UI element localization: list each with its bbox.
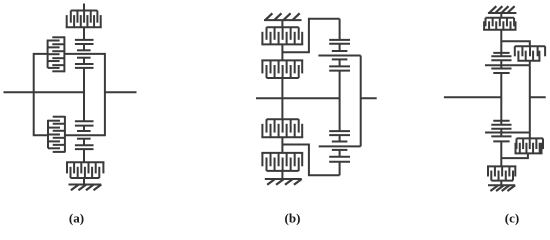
svg-text:(b): (b) [285, 211, 301, 226]
ground symbol (b top) [264, 19, 302, 21]
ground symbol (c bottom) [488, 184, 515, 186]
brake B5 pack (b bottom-1) [267, 118, 299, 120]
clutch C3 plates (a lower) [75, 120, 94, 122]
ground symbol (b bottom) [265, 178, 302, 180]
clutch C8 plates (b) [329, 156, 350, 158]
wire: right vertical (c) [529, 65, 531, 132]
wire: output stub (c) [530, 96, 546, 98]
wire: output shaft right (a) [105, 91, 137, 93]
ground symbol (c top) [488, 12, 517, 14]
gear node bar (b u1) [339, 44, 341, 51]
wire: central shaft through input junction (a) [83, 68, 85, 121]
wire: upper link to right clutch (c) [501, 41, 530, 46]
wire: C1 lower hub (a) [83, 44, 85, 50]
wire: lower link to clutch column (b) [282, 145, 339, 176]
gear node bars upper (a) [77, 57, 91, 59]
wire: clutch C9 to carrier line (c) [529, 61, 531, 65]
wire: outer ring shaft (b) [360, 56, 362, 147]
wire: shaft to bottom brake (a) [83, 149, 85, 162]
brake B2 multi-plate pack (a bottom) [66, 161, 104, 163]
clutch CL2 side pack (a lower-left) [47, 120, 49, 149]
gear node bars (c u2) [491, 59, 511, 61]
svg-text:(c): (c) [505, 211, 519, 226]
ground symbol (a) [69, 184, 102, 186]
gear node bar (a bottom) [77, 138, 91, 140]
gear node bar (b l1) [339, 135, 341, 141]
gear node bars (c u1) [493, 52, 509, 54]
svg-text:(a): (a) [69, 211, 84, 226]
brake B1 multi-plate pack (a top) [71, 10, 98, 12]
brake B6 pack (b bottom-2) [261, 152, 303, 154]
carrier link upper (c) [485, 64, 530, 66]
brake B7 pack (c top) [486, 17, 515, 19]
clutch C1 plates (a) [75, 39, 94, 41]
wire: clutch column mid shaft (b) [339, 71, 341, 132]
wire: left column shaft through input (b) [281, 78, 283, 119]
clutch C6 plates (b) [329, 65, 350, 67]
clutch C4 lower plate (a) [75, 148, 94, 150]
clutch CL1 side pack (a upper-left) [47, 40, 49, 68]
wire: stub to bottom ground (c) [500, 181, 502, 186]
gear node bar (b l2) [332, 149, 348, 151]
brake B4 pack (b top-2) [261, 59, 303, 61]
carrier link upper (b) [318, 55, 360, 57]
wire: stub ground to brake B3 (b) [281, 20, 283, 27]
wire: shaft comb to clutch C1 (a) [83, 27, 85, 40]
gear node bar (c u3) [493, 72, 509, 74]
clutch C2 upper plate (a) [75, 67, 94, 69]
wire: upper link to clutch column (b) [282, 19, 339, 53]
clutch C9 side pack (c upper-right) [515, 45, 545, 47]
wire: input shaft left (a) [4, 91, 85, 93]
wire: link to lower right clutch (c) [529, 133, 531, 139]
wire: clutch C10 link to center (c) [501, 153, 528, 158]
wire: center shaft upper (c) [500, 30, 502, 53]
wire: input shaft (c) [444, 96, 501, 98]
gear node bars lower (a) [83, 126, 85, 131]
gear node bars (c l1) [493, 120, 509, 122]
carrier link lower (c) [485, 132, 530, 134]
clutch C7 plates (b) [329, 130, 350, 132]
wire: input shaft (b) [256, 97, 340, 99]
brake B3 pack (b top-1) [267, 26, 299, 28]
carrier link lower (b) [319, 145, 361, 147]
gear node bars (c l2) [491, 128, 511, 130]
frame right wall (a) [64, 54, 105, 135]
wire: center shaft through input (c) [500, 73, 502, 121]
wire: clutch column bottom shaft (b) [339, 162, 341, 176]
wire: shaft between brakes (b) [281, 44, 283, 60]
wire: clutch column top shaft (b) [339, 19, 341, 40]
wire: output stub (b) [361, 97, 377, 99]
gear node bar (b u2) [332, 58, 348, 60]
wire: stub to ground (a) [83, 178, 85, 185]
wire: stub ground to brake B7 (c) [500, 13, 502, 18]
wire: stub to bottom ground (b) [281, 171, 283, 179]
clutch C5 plates (b) [329, 39, 350, 41]
brake B8 pack (c bottom) [487, 165, 516, 167]
clutch C10 side pack (c lower-right) [517, 137, 544, 139]
wire: top stub shaft (a) [83, 4, 85, 12]
wire: shaft between lower brakes (b) [281, 137, 283, 153]
gear node bar (c l3) [493, 140, 509, 142]
wire: center shaft lower (c) [500, 141, 502, 166]
frame top-left link (a) [34, 54, 48, 135]
